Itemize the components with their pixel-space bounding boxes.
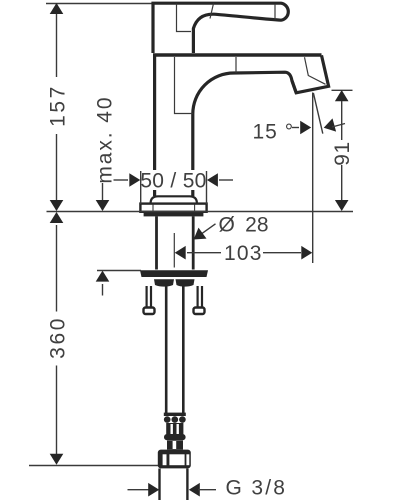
- svg-text:50 / 50: 50 / 50: [140, 170, 206, 193]
- dim 157 arrow down: [50, 200, 64, 211]
- dim 103 arrow right: [301, 246, 312, 260]
- dim 5050 arrow right: [207, 173, 218, 187]
- spout underside: [193, 72, 296, 196]
- dim 91 arrow up: [335, 90, 349, 101]
- dim G38 arrow right: [189, 483, 200, 497]
- dim 360 arrow up: [50, 212, 64, 223]
- plate extension line: [97, 270, 141, 272]
- body top bar: [153, 53, 322, 56]
- pipe shoulder bar: [164, 413, 186, 416]
- dim max40 line lower: [102, 284, 104, 296]
- handle seam near cap: [274, 4, 276, 20]
- hex nut window middle: [169, 454, 184, 465]
- svg-text:15 °: 15 °: [253, 121, 295, 144]
- dim max40 line upper: [102, 183, 104, 210]
- body left edge: [153, 55, 156, 196]
- svg-text:360: 360: [47, 316, 70, 359]
- dim 5050 ext right: [206, 171, 208, 204]
- dim 5050 tail right: [219, 179, 233, 181]
- dim 103 line: [187, 252, 221, 254]
- flange top profile: [151, 196, 197, 203]
- dim 157 arrow up: [50, 3, 64, 14]
- shank left edge: [155, 216, 158, 269]
- threaded rod left: [146, 286, 148, 308]
- centerline: [173, 233, 175, 268]
- 15deg slant line: [313, 93, 322, 134]
- dim 15 arrow left: [324, 118, 336, 131]
- svg-text:max. 40: max. 40: [94, 96, 117, 184]
- dim 15 dash: [292, 127, 299, 129]
- spout tip outline: [292, 55, 329, 93]
- countertop line: [47, 211, 354, 213]
- top extension line: [46, 3, 156, 5]
- tailpiece right: [186, 469, 188, 500]
- hex nut window left: [163, 454, 167, 465]
- dim 5050 ext left: [140, 171, 142, 204]
- dim max40 arrow down: [96, 200, 110, 211]
- tailpiece left: [158, 469, 160, 500]
- dim 5050 tail left: [114, 179, 129, 181]
- flange band: [140, 204, 206, 212]
- corrugation block: [166, 423, 183, 436]
- text 50/50 white backing: [140, 170, 207, 190]
- svg-text:91: 91: [331, 141, 354, 166]
- hex nut body: [158, 450, 191, 469]
- flange band seam right: [194, 205, 196, 212]
- svg-text:103: 103: [224, 242, 263, 265]
- spout outlet extension line: [312, 93, 314, 264]
- svg-text:157: 157: [47, 84, 70, 127]
- hex nut window right: [186, 454, 189, 465]
- mounting plate: [140, 270, 208, 277]
- body seam vertical left: [175, 57, 193, 114]
- dim G38 tail left: [128, 489, 151, 491]
- supply pipe right: [182, 286, 185, 414]
- rod foot left: [144, 308, 155, 315]
- corrugation bumps: [164, 416, 171, 423]
- dia28 leader: [201, 224, 216, 234]
- handle seam left step: [177, 4, 192, 32]
- dim 103 arrow left: [175, 246, 186, 260]
- dim 15 arrow right: [300, 121, 311, 135]
- corrugation bulge: [164, 434, 186, 440]
- mounting nuts: [154, 279, 174, 286]
- corrugation lower: [167, 441, 183, 450]
- dim G38 arrow left: [148, 483, 159, 497]
- dia28 arrow: [194, 228, 207, 240]
- shank right edge: [192, 216, 195, 269]
- dim 360 arrow down: [50, 454, 64, 465]
- flange band seam left: [152, 205, 154, 212]
- bottom extension line: [29, 465, 158, 467]
- dim 360 line: [56, 225, 58, 312]
- supply pipe left: [165, 286, 168, 414]
- dim 91 line: [341, 101, 343, 140]
- dim 5050 arrow left: [129, 173, 140, 187]
- flange shadow bar: [144, 212, 204, 216]
- body seam vertical right: [235, 57, 237, 73]
- dim max40 arrow up: [96, 271, 110, 282]
- outlet reference line: [332, 89, 353, 91]
- dim 91 arrow down: [335, 200, 349, 211]
- spout tip seam: [305, 57, 326, 84]
- handle seam diagonal: [210, 4, 214, 19]
- handle lever outline: [153, 3, 288, 53]
- dim 15 tail: [332, 124, 345, 128]
- svg-text:G3/8: G3/8: [226, 477, 288, 500]
- threaded rod right: [197, 286, 199, 308]
- rod foot right: [194, 308, 205, 315]
- dim G38 tail right: [198, 489, 216, 491]
- dim 157 line: [56, 4, 58, 77]
